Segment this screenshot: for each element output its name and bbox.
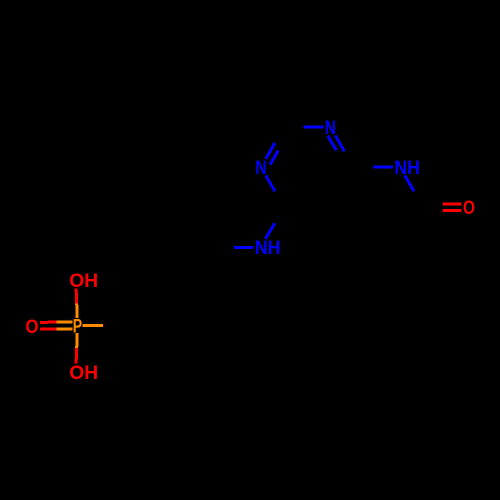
- svg-text:N: N: [325, 118, 336, 139]
- bond N1-C2 (N1 half): [304, 126, 324, 129]
- bond P16=O17 line2 (P16 half): [56, 328, 72, 331]
- bond P16-O18 (P16 half): [75, 303, 79, 318]
- bond C2=N3 inner (N3 half): [270, 150, 278, 165]
- bond C2=N3 outer (N3 half): [266, 143, 275, 159]
- bond N11-C12 (N11 half): [234, 246, 254, 249]
- svg-text:OH: OH: [69, 271, 98, 292]
- svg-text:P: P: [73, 317, 83, 338]
- bond N3-C4 (N3 half): [266, 175, 275, 191]
- bond C8=O9 line1 (O9 half): [442, 209, 461, 212]
- bond P16=O17 line1 (P16 half): [56, 321, 72, 324]
- bond P16-O19 (O19 half): [75, 348, 79, 363]
- svg-text:OH: OH: [69, 363, 98, 384]
- bond C6=N1 outer (N1 half): [335, 135, 344, 151]
- svg-text:NH: NH: [394, 158, 420, 179]
- svg-text:O: O: [463, 198, 475, 219]
- bond P16-O18 (O18 half): [75, 289, 79, 304]
- svg-text:N: N: [255, 158, 266, 179]
- bond C4-N11 (N11 half): [265, 223, 274, 239]
- bond P16-O19 (P16 half): [75, 333, 79, 348]
- bond C6-N7 (N7 half): [373, 166, 393, 169]
- bond C6=N1 inner (N1 half): [328, 136, 336, 151]
- bond N7-C8 (N7 half): [405, 175, 414, 191]
- bond P16=O17 line1 (O17 half): [40, 321, 56, 324]
- bond P16=O17 line2 (O17 half): [40, 328, 56, 331]
- svg-text:NH: NH: [255, 238, 281, 259]
- bond C15-P16 (P16 half): [82, 324, 103, 327]
- bond C8=O9 line2 (O9 half): [442, 202, 461, 205]
- svg-text:O: O: [26, 317, 39, 338]
